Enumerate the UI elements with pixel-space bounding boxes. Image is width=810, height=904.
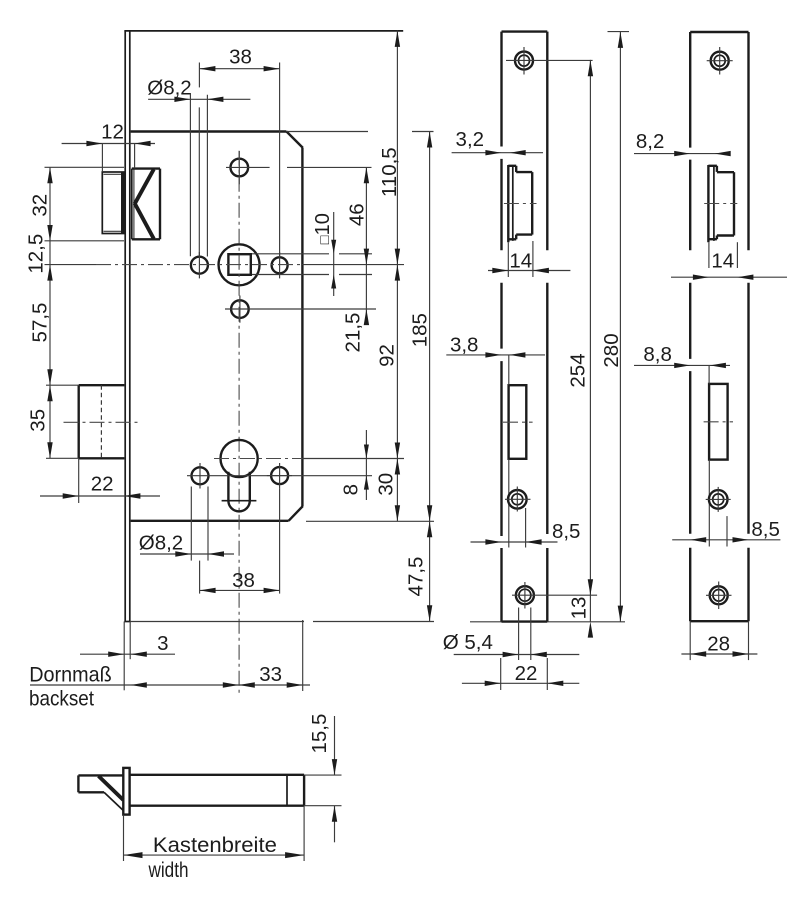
svg-text:8,2: 8,2 <box>636 130 665 153</box>
left dim chain line <box>47 167 52 458</box>
extension line case top <box>287 131 434 133</box>
hole right of follower <box>272 252 288 278</box>
hole below follower <box>225 296 376 323</box>
plate 2 screw hole top <box>707 47 733 75</box>
plate 2 screw hole middle <box>706 487 731 512</box>
svg-text:21,5: 21,5 <box>342 313 365 353</box>
spindle square 10mm <box>228 254 250 275</box>
svg-text:Ø8,2: Ø8,2 <box>139 532 183 555</box>
left extension lines <box>45 167 125 458</box>
dim 12.5 text <box>25 234 48 274</box>
hole right cylinder row <box>267 463 292 489</box>
plate 2 pocket extensions <box>709 365 727 546</box>
svg-text:22: 22 <box>91 472 114 495</box>
svg-text:57,5: 57,5 <box>28 303 51 343</box>
plate 1 latch pocket <box>504 165 537 242</box>
strike plate 1 right edge <box>546 32 548 622</box>
strike plate 2 left edge <box>689 32 691 621</box>
plate 1 screw hole middle <box>505 487 531 512</box>
extension hole top to 46 dim <box>287 166 372 168</box>
dim 38 top <box>199 46 279 257</box>
strike plate 2 right edge <box>747 32 749 621</box>
dim 8.8 <box>634 343 730 368</box>
dim 3.8 <box>446 334 545 358</box>
euro profile cylinder hole <box>221 440 258 512</box>
hole left of follower <box>191 252 208 278</box>
svg-text:14: 14 <box>711 250 734 273</box>
dim 46 and 21.5 line <box>342 167 370 352</box>
latch bolt head <box>102 172 124 234</box>
dim 8.2 plate 2 <box>634 130 731 156</box>
svg-text:185: 185 <box>409 313 432 347</box>
dim 3 faceplate thickness <box>80 622 175 691</box>
lock case outline <box>131 132 303 521</box>
svg-text:Ø8,2: Ø8,2 <box>147 77 191 100</box>
dim dia 5.4 <box>443 608 580 661</box>
dim 35 text <box>27 409 50 432</box>
plate 2 screw hole bottom <box>706 582 732 610</box>
dim 22 plate 1 <box>462 658 579 690</box>
hole top fixing <box>226 151 270 184</box>
dim square 10 <box>252 212 372 296</box>
dim 57.5 text <box>28 303 51 343</box>
dim dia 8.2 bottom <box>139 487 280 594</box>
faceplate (Stulp) vertical plate <box>124 30 403 621</box>
svg-text:35: 35 <box>27 409 50 432</box>
dim 3.2 <box>452 128 543 155</box>
extension line case bottom <box>306 520 434 522</box>
hole left cylinder row <box>187 463 213 489</box>
dim 110.5 / 92 / 30 line <box>375 30 402 521</box>
dim 8.5 plate 1 <box>471 520 581 545</box>
dim backset Dornmass <box>29 620 310 711</box>
dim 28 plate 2 <box>681 621 757 660</box>
dim 254 and 13 line <box>567 60 593 638</box>
svg-text:Ø 5,4: Ø 5,4 <box>443 631 493 654</box>
plan view faceplate bar <box>123 768 129 815</box>
svg-text:3,8: 3,8 <box>450 334 479 357</box>
dim 14 plate 1 <box>488 241 570 277</box>
plate 1 deadbolt pocket <box>503 385 533 459</box>
svg-text:Dornmaß: Dornmaß <box>29 664 112 687</box>
svg-text:22: 22 <box>515 662 538 685</box>
plate 1 screw hole bottom <box>512 582 597 609</box>
svg-text:8,5: 8,5 <box>552 520 581 543</box>
strike plate 1 top and bottom edges <box>470 32 625 622</box>
follower circle <box>219 244 260 285</box>
hole row extension line <box>213 475 372 477</box>
plate 2 latch pocket <box>704 165 737 242</box>
svg-text:width: width <box>148 859 189 882</box>
svg-text:8: 8 <box>339 484 362 495</box>
svg-text:30: 30 <box>375 473 398 496</box>
svg-text:15,5: 15,5 <box>308 714 331 754</box>
svg-text:Kastenbreite: Kastenbreite <box>153 834 277 857</box>
dim 280 line <box>600 32 629 622</box>
plate 2 deadbolt pocket <box>704 384 733 460</box>
svg-text:8,5: 8,5 <box>751 518 780 541</box>
dim 22 deadbolt <box>40 458 160 503</box>
dim 8 line <box>339 430 369 500</box>
svg-text:280: 280 <box>600 333 623 367</box>
svg-text:46: 46 <box>346 203 369 226</box>
strike plate 1 left edge <box>500 32 502 622</box>
dim 8.5 plate 2 <box>672 518 780 543</box>
dim dia 8.2 top <box>147 77 250 257</box>
plan view case <box>130 775 305 806</box>
svg-text:13: 13 <box>567 597 590 620</box>
dim 14 plate 2 <box>671 242 787 280</box>
svg-text:32: 32 <box>28 194 51 217</box>
plan view latch bolt <box>78 775 123 810</box>
svg-text:3,2: 3,2 <box>456 128 485 151</box>
svg-text:8,8: 8,8 <box>643 343 672 366</box>
svg-text:12,5: 12,5 <box>25 234 48 274</box>
svg-text:3: 3 <box>157 632 168 655</box>
svg-text:110,5: 110,5 <box>378 147 401 197</box>
svg-text:47,5: 47,5 <box>404 557 427 597</box>
horizontal center line spindle row <box>45 264 405 266</box>
plate 1 pocket extensions <box>509 355 526 548</box>
deadbolt <box>64 385 139 458</box>
dim 15.5 case thickness <box>304 714 341 843</box>
svg-text:14: 14 <box>509 250 532 273</box>
dim 38 bottom <box>200 569 280 593</box>
dim 185 / 47.5 line <box>404 132 432 622</box>
svg-text:254: 254 <box>567 353 590 387</box>
plate 1 screw hole top <box>506 47 593 75</box>
dim 32 text <box>28 194 51 217</box>
svg-text:□10: □10 <box>312 213 334 244</box>
cylinder center line <box>214 458 404 460</box>
svg-text:28: 28 <box>707 633 730 656</box>
dim Kastenbreite width <box>124 806 305 882</box>
svg-text:38: 38 <box>232 569 255 592</box>
dim 12 latch protrusion <box>62 121 155 172</box>
latch bolt body with bevel <box>132 169 160 240</box>
svg-text:12: 12 <box>101 121 124 144</box>
faceplate bottom end extension <box>124 621 434 623</box>
svg-text:backset: backset <box>29 688 94 711</box>
svg-text:92: 92 <box>376 344 399 367</box>
svg-text:38: 38 <box>229 46 252 69</box>
svg-text:33: 33 <box>259 663 282 686</box>
strike plate 2 top and bottom edges <box>690 32 748 621</box>
vertical center line lock <box>238 151 240 693</box>
